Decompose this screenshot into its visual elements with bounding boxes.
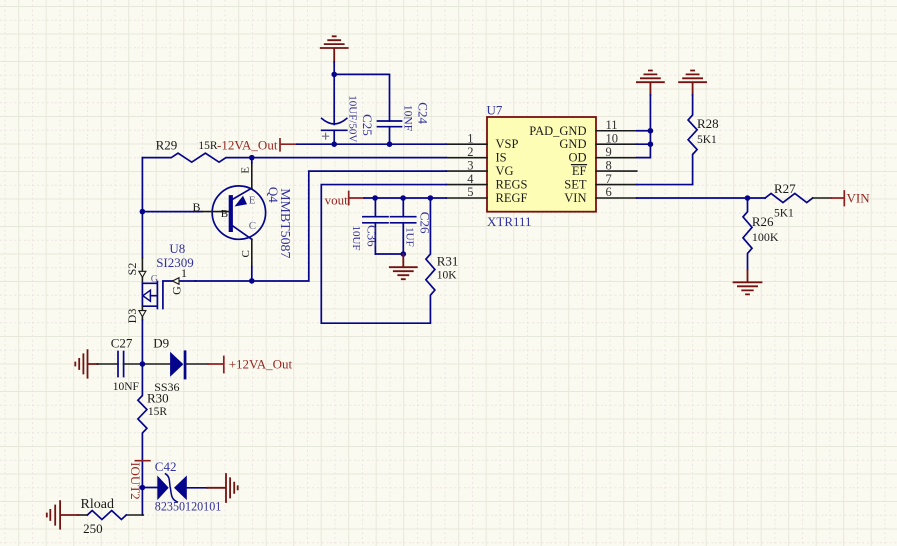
svg-text:S2: S2 (125, 263, 139, 276)
R29 designator label (156, 138, 178, 153)
C26 value label 1UF (404, 227, 416, 247)
svg-text:100K: 100K (752, 230, 779, 244)
U7 pin name OD (568, 150, 586, 164)
resistor R27 (765, 194, 813, 203)
ground left of C27 (75, 350, 97, 378)
svg-text:PAD_GND: PAD_GND (529, 124, 586, 138)
junction dot Q4 emitter on IS row (249, 155, 255, 161)
Q4 pin letter B outside (193, 200, 201, 214)
svg-text:Rload: Rload (81, 497, 114, 512)
C24 value label 10NF (402, 105, 414, 131)
svg-text:R31: R31 (437, 254, 459, 269)
U7 pin number 3 (467, 158, 473, 172)
wire U8 drain to D9 row (141, 320, 143, 364)
svg-text:250: 250 (83, 521, 103, 536)
U7 pin name IS (496, 150, 507, 164)
wire ground to pins 11 10 9 (637, 95, 651, 158)
svg-text:D9: D9 (153, 336, 169, 351)
C42 value label 82350120101 (155, 500, 222, 514)
Q4 emitter lead (233, 188, 252, 199)
U7 pin 2 IS stub (446, 157, 487, 159)
svg-text:R29: R29 (156, 138, 178, 153)
D9 value label SS36 (154, 380, 179, 394)
capacitor C36 (363, 198, 388, 254)
Q4 base pin (202, 211, 229, 213)
port IOUT2 tick (135, 460, 150, 462)
U8 drain pin (141, 306, 143, 320)
U8 gate pin arrow (173, 278, 180, 285)
svg-text:IOUT2: IOUT2 (128, 462, 143, 500)
svg-text:C27: C27 (111, 336, 133, 351)
U7 pin 4 REGS stub (446, 184, 487, 186)
C36 value label 10UF (350, 225, 362, 250)
Q4 collector wire to gate net (251, 267, 253, 281)
svg-text:10: 10 (606, 131, 619, 145)
Q4 emitter pin (251, 163, 253, 189)
svg-text:C25: C25 (360, 114, 375, 136)
svg-text:5K1: 5K1 (697, 134, 717, 146)
port vout (349, 192, 365, 205)
U7 pin name VSP (496, 137, 519, 151)
C27 designator label (111, 336, 133, 351)
R30 value label 15R (148, 406, 168, 418)
svg-text:3: 3 (467, 158, 473, 172)
wire Q4 base (142, 211, 201, 213)
U8 pin label S2 (125, 263, 139, 276)
capacitor C24 (378, 121, 402, 144)
R30 designator label (147, 391, 169, 406)
R28 designator label (697, 116, 719, 131)
R28 value label 5K1 (697, 134, 717, 146)
U7 pin number 9 (606, 145, 612, 159)
U7 pin number 10 (606, 131, 619, 145)
svg-text:G: G (151, 274, 158, 285)
svg-text:5K1: 5K1 (774, 208, 794, 220)
junction dot C36 top (372, 195, 378, 201)
U7 pin name REGS (496, 177, 528, 191)
wire net REGF row (364, 197, 446, 199)
port +12VA_Out (208, 357, 224, 373)
U8 gate wire (163, 280, 196, 282)
svg-text:-12VA_Out: -12VA_Out (217, 138, 278, 153)
ground top right B (679, 71, 706, 96)
Q4 pin name B inside (221, 208, 228, 220)
U8 body arrow (143, 290, 151, 301)
U7 pin 7 SET stub (596, 184, 637, 186)
Q4 collector lead (233, 226, 252, 239)
C24 designator label (416, 102, 431, 124)
wire IOUT2 node down to Rload (141, 488, 143, 516)
svg-text:XTR111: XTR111 (487, 214, 532, 229)
C27 value label 10NF (113, 381, 139, 393)
junction dot C25 on VSP row (331, 141, 337, 147)
Q4 pin name C inside (249, 220, 256, 232)
D9 designator label (153, 336, 169, 351)
R26 designator label (752, 214, 774, 229)
C25 plus sign (323, 133, 329, 139)
Rload value label 250 (83, 521, 103, 536)
op-amp U7 XTR111 body (487, 117, 596, 212)
C42 designator label (155, 459, 177, 474)
svg-text:1UF: 1UF (404, 227, 416, 247)
Q4 pin name E inside (249, 195, 256, 207)
svg-text:10UF/50V: 10UF/50V (346, 95, 358, 142)
C36 designator label (365, 225, 380, 247)
diode D9 (170, 350, 186, 379)
junction dot R26 R27 (745, 195, 751, 201)
U7 pin 1 VSP stub (446, 143, 487, 145)
Q4 collector pin (251, 239, 253, 266)
port VIN label (847, 191, 871, 206)
svg-text:82350120101: 82350120101 (155, 500, 222, 514)
svg-text:R30: R30 (147, 391, 169, 406)
svg-text:11: 11 (606, 118, 618, 132)
U7 pin number 5 (467, 185, 473, 199)
svg-text:C42: C42 (155, 459, 177, 474)
port -12VA_Out (280, 139, 297, 151)
svg-text:R26: R26 (752, 214, 774, 229)
svg-text:10UF: 10UF (350, 225, 362, 250)
resistor R29 (142, 153, 446, 162)
svg-text:15R: 15R (198, 140, 218, 152)
ground (earth) top middle (321, 36, 348, 62)
Q4 emitter arrow (235, 196, 248, 207)
svg-text:8: 8 (606, 158, 612, 172)
svg-text:VG: VG (496, 164, 514, 178)
mosfet U8 body (142, 282, 163, 309)
svg-text:SI2309: SI2309 (156, 255, 194, 270)
U7 pin 5 REGF stub (446, 197, 487, 199)
U7 pin 8 EF stub (596, 170, 637, 172)
svg-text:1: 1 (181, 266, 187, 280)
svg-text:U7: U7 (487, 102, 503, 117)
wire C27 to D9 (124, 363, 171, 365)
U8 source pin arrow (139, 271, 146, 277)
svg-text:C: C (249, 220, 256, 232)
junction dot pin 11 (648, 128, 654, 134)
svg-text:10NF: 10NF (113, 381, 139, 393)
U7 pin number 1 (467, 131, 473, 145)
wire D9 to port (186, 363, 208, 365)
junction dot C26 top (400, 195, 406, 201)
svg-text:GND: GND (559, 137, 586, 151)
R26 value label 100K (752, 230, 779, 244)
wire node A to C24 branch (334, 74, 389, 121)
U8 gate pin number 1 (181, 266, 187, 280)
Q4 pin letter C outside (240, 250, 252, 257)
wire ground to C27 (98, 363, 119, 365)
U7 pin name VG (496, 164, 514, 178)
svg-text:C24: C24 (416, 102, 431, 124)
svg-text:REGF: REGF (496, 191, 528, 205)
U7 pin 11 PAD_GND stub (596, 130, 637, 132)
wire left rail down to Q4 base (141, 158, 143, 212)
svg-text:6: 6 (606, 185, 612, 199)
svg-text:B: B (193, 200, 201, 214)
wire ground to node A (333, 62, 335, 74)
TVS diode C42 (157, 474, 187, 502)
svg-text:VIN: VIN (564, 191, 586, 205)
Q4 designator label (266, 187, 281, 203)
C25 value label 10UF/50V (346, 95, 358, 142)
wire net VIN row (637, 197, 765, 199)
wire gate net to VG pin (196, 171, 447, 281)
U8 value label SI2309 (156, 255, 194, 270)
U7 pin name GND (559, 137, 586, 151)
svg-text:VSP: VSP (496, 137, 519, 151)
U7 pin 3 VG stub (446, 170, 487, 172)
junction dot C26 bottom (401, 251, 407, 257)
svg-text:15R: 15R (148, 406, 168, 418)
wire Q4 base node down to U8 source (141, 212, 143, 258)
U7 pin 6 VIN stub (596, 197, 637, 199)
U7 pin name SET (564, 177, 587, 191)
R31 designator label (437, 254, 459, 269)
junction dot pin 10 (648, 141, 654, 147)
svg-text:10NF: 10NF (402, 105, 414, 131)
R27 value label 5K1 (774, 208, 794, 220)
U7 pin number 7 (606, 172, 612, 186)
C26 designator label (418, 212, 433, 234)
U7 pin number 2 (467, 145, 473, 159)
svg-text:EF: EF (572, 164, 587, 178)
transistor Q4 circle (212, 186, 265, 239)
svg-text:5: 5 (467, 185, 473, 199)
U8 source pin (141, 258, 143, 283)
svg-text:4: 4 (467, 172, 474, 186)
wire C36 bottom to C26 bottom (375, 253, 403, 255)
ground right of C42 (207, 474, 237, 502)
svg-text:1: 1 (467, 131, 473, 145)
ground below C26 (390, 254, 417, 279)
port VIN (831, 191, 844, 206)
svg-text:G: G (169, 286, 183, 295)
Q4 base bar (229, 195, 233, 232)
U7 designator label (487, 102, 503, 117)
R29 value label 15R (198, 140, 218, 152)
port -12VA_Out label (217, 138, 278, 153)
port IOUT2 label (128, 462, 143, 500)
svg-text:B: B (221, 208, 228, 220)
svg-text:R27: R27 (774, 181, 796, 196)
svg-text:D3: D3 (125, 309, 139, 324)
wire net VSP row (297, 143, 446, 145)
U7 pin 10 GND stub (596, 143, 637, 145)
U7 value label XTR111 (487, 214, 532, 229)
junction dot Q4 collector / gate net (249, 278, 255, 284)
svg-text:10K: 10K (437, 269, 458, 281)
Q4 emitter wire to IS row (251, 158, 253, 163)
svg-text:R28: R28 (697, 116, 719, 131)
Rload designator label (81, 497, 114, 512)
U7 pin 9 OD stub (596, 157, 637, 159)
svg-text:+12VA_Out: +12VA_Out (229, 356, 293, 371)
U7 pin number 4 (467, 172, 474, 186)
ground left of Rload (47, 501, 78, 529)
U8 designator label (169, 241, 185, 256)
svg-text:OD: OD (568, 150, 586, 164)
svg-text:7: 7 (606, 172, 612, 186)
svg-text:vout: vout (325, 193, 349, 208)
svg-text:E: E (249, 195, 256, 207)
wire C42 to ground (187, 487, 208, 489)
ground below R26 (734, 270, 762, 294)
R31 value label 10K (437, 269, 458, 281)
svg-text:REGS: REGS (496, 177, 528, 191)
Q4 value label MMBT5087 (277, 188, 292, 258)
svg-text:9: 9 (606, 145, 612, 159)
C25 designator label (360, 114, 375, 136)
wire Rload to ground (78, 514, 87, 516)
port vout label (325, 193, 349, 208)
Q4 pin letter E outside (239, 167, 251, 174)
svg-text:2: 2 (467, 145, 473, 159)
resistor R26 (743, 198, 752, 270)
U8 pin label D3 (125, 309, 139, 324)
capacitor C26 (391, 198, 416, 254)
svg-text:SET: SET (564, 177, 587, 191)
svg-text:VIN: VIN (847, 191, 871, 206)
wire IOUT2 node to C42 (142, 487, 157, 489)
svg-text:C36: C36 (365, 225, 380, 247)
U7 pin name PAD_GND (529, 124, 586, 138)
svg-text:U8: U8 (169, 241, 185, 256)
svg-text:IS: IS (496, 150, 507, 164)
svg-text:C: C (240, 250, 252, 257)
resistor R28 (637, 95, 697, 185)
junction dot drain node (140, 361, 146, 367)
junction dot C24 on VSP row (387, 141, 393, 147)
U7 pin name VIN (564, 191, 586, 205)
U7 pin number 8 (606, 158, 612, 172)
svg-text:MMBT5087: MMBT5087 (277, 188, 292, 258)
U8 drain pin arrow (139, 311, 146, 317)
resistor R30 (138, 364, 147, 488)
capacitor C27 (118, 352, 124, 377)
U7 pin name REGF (496, 191, 528, 205)
resistor Rload (87, 511, 126, 520)
node A junction dot (331, 72, 337, 78)
U7 pin number 11 (606, 118, 618, 132)
U7 pin name EF with overline (572, 164, 587, 178)
port +12VA_Out label (229, 356, 293, 371)
U8 gate pin name G (169, 286, 183, 295)
resistor R31 (321, 185, 446, 324)
R27 designator label (774, 181, 796, 196)
junction dot IOUT2 node (140, 485, 146, 491)
junction dot R31 top (428, 195, 434, 201)
ground top right A (637, 71, 664, 96)
junction dot base node (140, 209, 146, 215)
svg-text:E: E (239, 167, 251, 174)
capacitor C25 polarized (322, 74, 347, 144)
U8 pin name G inside (151, 274, 158, 285)
U7 pin number 6 (606, 185, 612, 199)
